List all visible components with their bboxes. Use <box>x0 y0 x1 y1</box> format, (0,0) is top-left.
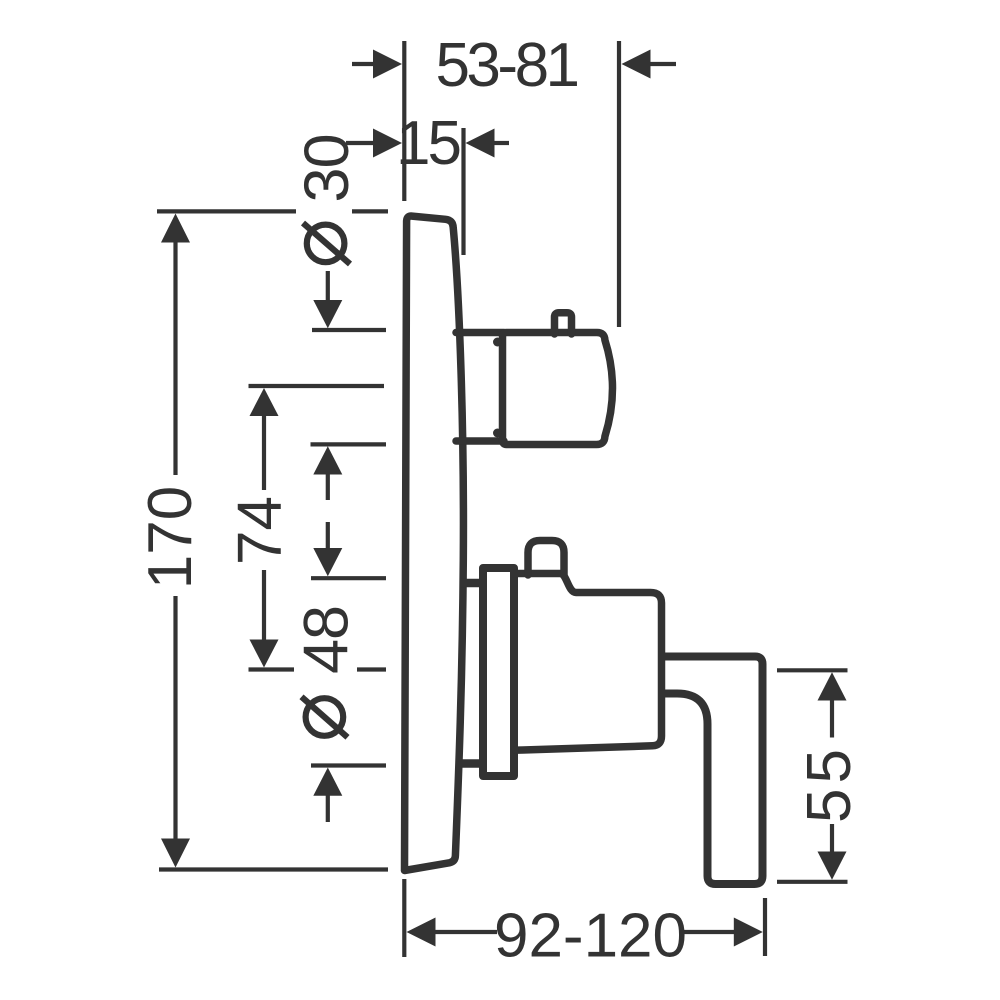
tick knob bottom y=444 <box>311 442 387 446</box>
arrow 15 right <box>466 129 495 158</box>
svg-text:48: 48 <box>292 606 362 674</box>
53-81 dim shaft right <box>650 62 676 66</box>
53-81 dim shaft left <box>352 62 373 66</box>
tick 55 bottom <box>777 880 848 884</box>
shut-off handle body <box>512 574 662 751</box>
arrow 55 down <box>818 852 847 880</box>
tick 55 top <box>777 668 848 672</box>
handle lever <box>660 657 763 885</box>
92-120 dim shaft left <box>435 930 497 934</box>
svg-text:55: 55 <box>795 744 864 823</box>
extension line bottom left <box>402 879 406 957</box>
diameter symbol for 30: slash <box>303 223 350 264</box>
arrow dia30 down <box>313 300 342 328</box>
arrow dia48 up <box>313 768 342 796</box>
svg-text:30: 30 <box>292 134 362 202</box>
thermostat knob stem bottom edge <box>456 437 504 445</box>
arrow 53-81 right <box>622 50 651 79</box>
arrow 92-120 right <box>734 918 763 947</box>
thermostat knob stem top edge <box>456 329 504 337</box>
svg-text:74: 74 <box>226 496 295 565</box>
170 dim shaft upper <box>173 242 177 475</box>
74 dim shaft upper <box>262 416 266 490</box>
tick 74 bottom right segment <box>357 667 386 671</box>
diameter symbol for 48: circle <box>306 698 344 736</box>
diameter symbol for 48: slash <box>302 697 348 738</box>
92-120 dim shaft right <box>682 930 734 934</box>
tick top y=211 left segment <box>157 209 296 213</box>
55 dim shaft upper <box>830 700 834 738</box>
svg-text:170: 170 <box>136 486 205 589</box>
sleeve upper tab <box>461 579 480 588</box>
tick sleeve bottom y=765 <box>311 763 386 767</box>
arrow dia48 down <box>313 548 342 576</box>
tick 74 bottom left segment <box>249 667 295 671</box>
thermostat knob body <box>503 333 613 445</box>
svg-text:53-81: 53-81 <box>435 31 577 100</box>
knob stem fillet dot upper <box>493 338 502 347</box>
55 dim shaft lower <box>830 824 834 852</box>
dia48 arrow stem upper <box>326 522 330 548</box>
arrow 55 up <box>818 672 847 700</box>
tick 74 top y=386 <box>249 384 385 388</box>
handle top button <box>528 541 564 576</box>
svg-text:15: 15 <box>396 109 459 178</box>
extension line right of 53-81 <box>617 41 621 327</box>
arrow dia30 up <box>313 446 342 474</box>
arrow 170 up <box>161 214 190 243</box>
wall plate (escutcheon, side view) <box>405 216 464 870</box>
dia30 arrow stem upper <box>326 271 330 300</box>
dia48 arrow stem lower <box>326 795 330 822</box>
tick bottom y=869 <box>159 867 388 871</box>
arrow 53-81 left <box>373 50 402 79</box>
knob stem fillet dot lower <box>493 429 502 438</box>
arrow 92-120 left <box>407 918 436 947</box>
extension line bottom right <box>763 898 767 956</box>
dia30 arrow stem lower <box>326 474 330 500</box>
tick top y=211 right segment <box>352 209 388 213</box>
sleeve lower tab <box>461 759 480 768</box>
tick knob top y=330 <box>312 328 386 332</box>
tick sleeve top y=578 <box>311 576 386 580</box>
extension line right of 15 <box>461 128 465 255</box>
170 dim shaft lower <box>173 596 177 839</box>
valve sleeve (lower escutcheon) <box>483 568 514 776</box>
diameter symbol for 30: circle <box>307 225 345 263</box>
74 dim shaft lower <box>262 570 266 640</box>
svg-text:92-120: 92-120 <box>494 902 687 971</box>
15 dim shaft right <box>494 141 509 145</box>
arrow 15 left <box>373 129 402 158</box>
15 dim shaft left <box>346 141 374 145</box>
arrow 170 down <box>161 839 190 868</box>
arrow 74 up <box>250 388 279 416</box>
thermostat knob grip tab <box>555 313 572 334</box>
arrow 74 down <box>250 640 279 668</box>
extension line left (x=404 top) <box>402 41 406 201</box>
